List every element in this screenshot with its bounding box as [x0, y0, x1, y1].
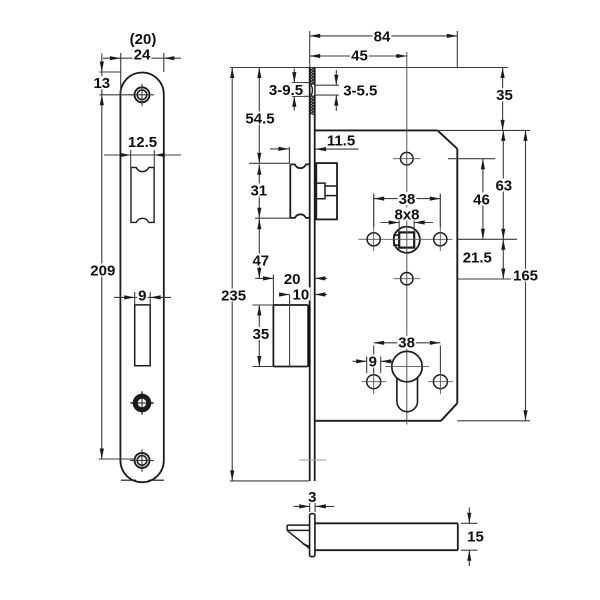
dimension (20) label — [129, 32, 158, 45]
dimension 3-9.5 — [268, 69, 310, 111]
deadbolt bottom reference line — [252, 366, 273, 368]
left follower hole centerline — [373, 195, 375, 252]
dimension 3 (faceplate thickness) — [294, 489, 335, 512]
dimension 12.5 — [104, 134, 181, 168]
dimension 46 — [472, 159, 491, 240]
svg-text:31: 31 — [250, 182, 267, 199]
spindle left tab — [394, 235, 399, 245]
dimension 45 — [310, 47, 407, 64]
light break mark on strip — [299, 459, 327, 461]
dimension 35 (top right) — [495, 68, 514, 131]
spindle follower circle — [394, 227, 420, 253]
svg-text:10: 10 — [293, 286, 310, 303]
dimension 35 (deadbolt) — [252, 305, 271, 367]
spindle centerline extension right — [458, 238, 517, 240]
latch bottom reference line — [255, 217, 290, 219]
dimension 15 (latch bolt height) — [461, 508, 484, 567]
faceplate bottom screw hole — [130, 449, 154, 472]
latch bolt plan view body — [315, 523, 458, 550]
dimension 84 — [310, 28, 458, 67]
svg-text:3-5.5: 3-5.5 — [343, 83, 377, 100]
left follower hole — [367, 233, 380, 246]
svg-text:84: 84 — [374, 28, 391, 45]
dimension 165 — [512, 130, 539, 420]
svg-text:165: 165 — [513, 268, 538, 285]
dimension 9 (cylinder hole dia) — [353, 353, 394, 373]
dimension 235 — [220, 68, 247, 481]
top reference line (faceplate top level) — [230, 67, 508, 69]
dimension 209 — [89, 262, 134, 459]
svg-text:21.5: 21.5 — [463, 250, 492, 267]
svg-text:3: 3 — [308, 489, 316, 506]
vertical centerline through spindle and cylinder — [406, 52, 408, 425]
dimension 47 — [251, 219, 270, 279]
dimension 8x8 — [381, 206, 434, 232]
faceplate deadbolt cutout — [135, 305, 151, 366]
upper hole extension line right — [448, 158, 495, 160]
cylinder right fixing hole — [428, 369, 453, 394]
dimension 38 (cylinder holes) — [374, 335, 441, 373]
svg-text:9: 9 — [138, 287, 146, 304]
latch housing block — [316, 163, 337, 219]
dimension 24 — [103, 47, 181, 95]
faceplate latch cutout — [131, 168, 154, 223]
dimension 9 (faceplate deadbolt cutout) — [114, 287, 171, 305]
dimension 10 — [279, 286, 327, 303]
adjustable lip notch in strip — [311, 85, 315, 95]
case bottom extension line — [457, 420, 530, 422]
svg-text:35: 35 — [253, 326, 270, 343]
faceplate side strip — [310, 68, 315, 482]
euro profile cylinder hole — [386, 351, 429, 411]
svg-text:235: 235 — [221, 287, 246, 304]
dimension 11.5 — [270, 132, 359, 164]
svg-text:9: 9 — [369, 353, 377, 370]
svg-text:38: 38 — [398, 335, 415, 352]
lower fixing hole — [394, 273, 421, 285]
latch bolt bevelled head — [287, 525, 310, 549]
svg-text:35: 35 — [496, 87, 513, 104]
svg-text:24: 24 — [134, 47, 151, 64]
latch bolt side view — [290, 164, 309, 218]
dimension 38 (spindle holes) — [374, 191, 441, 227]
svg-text:45: 45 — [351, 47, 368, 64]
dimension 54.5 — [244, 68, 275, 164]
right follower hole — [434, 233, 447, 246]
svg-text:3-9.5: 3-9.5 — [269, 82, 303, 99]
square-end variant marks at faceplate bottom — [121, 479, 136, 481]
spindle square 8x8 — [399, 232, 414, 247]
faceplate front view outline — [120, 72, 163, 482]
cylinder left fixing hole — [362, 369, 387, 394]
lock case outline — [315, 130, 458, 420]
right follower hole centerline — [439, 195, 441, 252]
spindle horizontal centerline — [359, 238, 453, 240]
svg-text:54.5: 54.5 — [245, 110, 274, 127]
svg-text:15: 15 — [467, 528, 484, 545]
dimension 3-5.5 — [315, 70, 377, 111]
upper fixing hole — [393, 152, 421, 165]
dimension 63 — [494, 130, 513, 239]
svg-text:8x8: 8x8 — [394, 206, 419, 223]
strip bottom reference line — [230, 480, 309, 482]
dimension 20 — [255, 271, 327, 305]
lower hole extension line right — [458, 278, 511, 280]
faceplate fixing dot (black) — [130, 391, 153, 414]
svg-text:13: 13 — [93, 75, 110, 92]
svg-text:63: 63 — [495, 177, 512, 194]
svg-text:(20): (20) — [130, 31, 157, 48]
deadbolt side view (thrown) — [273, 295, 310, 367]
faceplate top screw hole — [130, 84, 154, 107]
dimension 13 — [92, 54, 133, 460]
dimension 31 — [249, 164, 268, 218]
faceplate cross-section (bottom view) — [310, 514, 315, 557]
case top extension line — [438, 129, 531, 131]
svg-text:11.5: 11.5 — [327, 132, 355, 149]
svg-text:12.5: 12.5 — [128, 134, 157, 151]
dimension 21.5 — [463, 239, 506, 279]
latch top reference line — [249, 162, 289, 164]
svg-text:47: 47 — [252, 252, 269, 269]
deadbolt top reference line — [252, 304, 273, 306]
svg-text:46: 46 — [473, 191, 490, 208]
svg-text:209: 209 — [90, 262, 115, 279]
